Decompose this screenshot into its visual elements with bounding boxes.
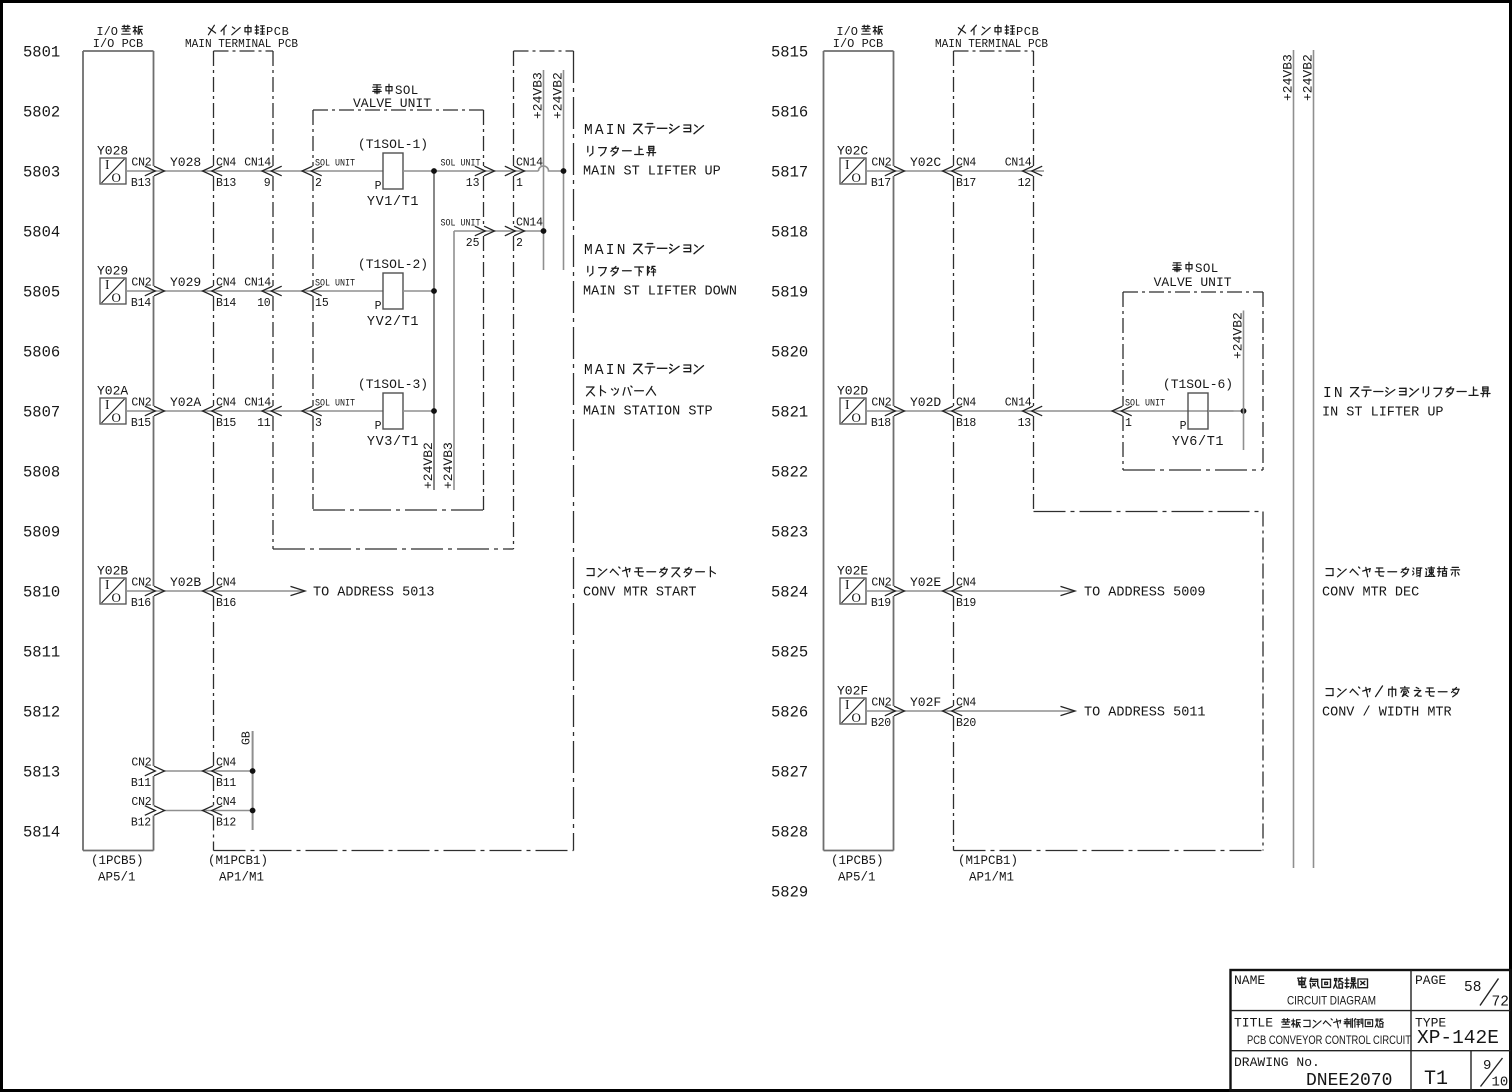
svg-text:(M1PCB1): (M1PCB1) xyxy=(208,854,268,868)
svg-text:B17: B17 xyxy=(956,177,976,190)
svg-text:5809: 5809 xyxy=(23,523,60,541)
svg-text:CN2: CN2 xyxy=(131,577,151,590)
svg-text:MAIN ST LIFTER UP: MAIN ST LIFTER UP xyxy=(583,165,721,180)
svg-text:SOL UNIT: SOL UNIT xyxy=(315,158,355,170)
svg-text:MAIN TERMINAL PCB: MAIN TERMINAL PCB xyxy=(935,37,1048,51)
svg-text:1: 1 xyxy=(516,177,523,190)
svg-text:MAIN: MAIN xyxy=(584,363,628,379)
svg-text:NAME: NAME xyxy=(1234,973,1265,988)
svg-text:5822: 5822 xyxy=(771,463,808,481)
svg-text:O: O xyxy=(852,170,861,185)
svg-text:CN2: CN2 xyxy=(871,577,891,590)
svg-text:CN2: CN2 xyxy=(871,697,891,710)
svg-text:PCB CONVEYOR CONTROL CIRCUIT: PCB CONVEYOR CONTROL CIRCUIT xyxy=(1247,1035,1411,1047)
svg-text:B14: B14 xyxy=(216,297,236,310)
svg-text:+24VB3: +24VB3 xyxy=(531,72,546,119)
svg-text:P: P xyxy=(375,180,382,193)
svg-text:CN4: CN4 xyxy=(216,157,236,170)
svg-text:MAIN: MAIN xyxy=(584,243,628,259)
svg-text:(1PCB5): (1PCB5) xyxy=(831,854,884,868)
svg-text:Y029: Y029 xyxy=(170,275,201,290)
svg-text:(T1SOL-2): (T1SOL-2) xyxy=(358,257,428,272)
svg-text:25: 25 xyxy=(466,237,480,250)
svg-text:5826: 5826 xyxy=(771,703,808,721)
svg-text:CONV MTR DEC: CONV MTR DEC xyxy=(1322,586,1419,601)
svg-text:CN4: CN4 xyxy=(956,697,976,710)
svg-text:B20: B20 xyxy=(956,717,976,730)
svg-text:I: I xyxy=(105,577,110,592)
svg-text:TO ADDRESS 5011: TO ADDRESS 5011 xyxy=(1084,706,1206,721)
svg-text:I/O PCB: I/O PCB xyxy=(93,37,143,51)
svg-text:O: O xyxy=(852,590,861,605)
svg-text:CN4: CN4 xyxy=(216,397,236,410)
svg-text:VALVE UNIT: VALVE UNIT xyxy=(1154,275,1232,290)
svg-text:B13: B13 xyxy=(131,177,151,190)
svg-text:CN4: CN4 xyxy=(956,577,976,590)
svg-text:I: I xyxy=(105,277,110,292)
svg-text:O: O xyxy=(852,410,861,425)
svg-text:AP1/M1: AP1/M1 xyxy=(219,871,264,885)
svg-text:11: 11 xyxy=(257,417,271,430)
svg-text:2: 2 xyxy=(315,177,322,190)
svg-text:YV2/T1: YV2/T1 xyxy=(367,315,419,330)
svg-text:I/O PCB: I/O PCB xyxy=(833,37,883,51)
svg-text:5824: 5824 xyxy=(771,583,808,601)
svg-text:B16: B16 xyxy=(216,597,236,610)
svg-text:B13: B13 xyxy=(216,177,236,190)
svg-text:5818: 5818 xyxy=(771,223,808,241)
svg-text:5819: 5819 xyxy=(771,283,808,301)
svg-text:AP5/1: AP5/1 xyxy=(838,871,876,885)
svg-text:CONV MTR START: CONV MTR START xyxy=(583,586,696,601)
svg-text:(T1SOL-1): (T1SOL-1) xyxy=(358,137,428,152)
svg-text:Y02E: Y02E xyxy=(837,564,868,579)
svg-text:Y028: Y028 xyxy=(97,144,128,159)
svg-text:5806: 5806 xyxy=(23,343,60,361)
svg-text:TO ADDRESS 5013: TO ADDRESS 5013 xyxy=(313,586,435,601)
svg-text:5829: 5829 xyxy=(771,883,808,901)
svg-text:Y02D: Y02D xyxy=(910,395,941,410)
svg-text:B12: B12 xyxy=(216,817,236,830)
svg-text:MAIN ST LIFTER DOWN: MAIN ST LIFTER DOWN xyxy=(583,285,737,300)
svg-text:I: I xyxy=(845,157,850,172)
svg-text:5810: 5810 xyxy=(23,583,60,601)
svg-text:12: 12 xyxy=(1018,177,1032,190)
svg-text:YV3/T1: YV3/T1 xyxy=(367,435,419,450)
svg-text:CN4: CN4 xyxy=(216,277,236,290)
svg-text:SOL UNIT: SOL UNIT xyxy=(1125,398,1165,410)
svg-text:B17: B17 xyxy=(871,177,891,190)
svg-text:Y02B: Y02B xyxy=(170,575,201,590)
svg-text:GB: GB xyxy=(241,731,254,745)
svg-text:5817: 5817 xyxy=(771,163,808,181)
svg-text:5815: 5815 xyxy=(771,43,808,61)
svg-text:Y028: Y028 xyxy=(170,155,201,170)
svg-text:I: I xyxy=(845,697,850,712)
svg-text:5828: 5828 xyxy=(771,823,808,841)
svg-text:(1PCB5): (1PCB5) xyxy=(91,854,144,868)
svg-text:DRAWING No.: DRAWING No. xyxy=(1234,1055,1320,1070)
svg-text:SOL UNIT: SOL UNIT xyxy=(441,158,481,170)
svg-text:5823: 5823 xyxy=(771,523,808,541)
svg-text:CN4: CN4 xyxy=(216,757,236,770)
svg-text:5805: 5805 xyxy=(23,283,60,301)
svg-text:P: P xyxy=(375,420,382,433)
svg-text:5814: 5814 xyxy=(23,823,60,841)
svg-text:5801: 5801 xyxy=(23,43,60,61)
svg-text:CN2: CN2 xyxy=(131,157,151,170)
svg-text:MAIN TERMINAL PCB: MAIN TERMINAL PCB xyxy=(185,37,298,51)
svg-text:5825: 5825 xyxy=(771,643,808,661)
svg-text:B11: B11 xyxy=(131,777,151,790)
svg-text:(T1SOL-6): (T1SOL-6) xyxy=(1163,377,1233,392)
svg-text:B19: B19 xyxy=(871,597,891,610)
svg-text:I: I xyxy=(105,397,110,412)
svg-text:5811: 5811 xyxy=(23,643,60,661)
svg-text:5821: 5821 xyxy=(771,403,808,421)
svg-text:5804: 5804 xyxy=(23,223,60,241)
svg-text:5813: 5813 xyxy=(23,763,60,781)
svg-text:CN4: CN4 xyxy=(956,157,976,170)
svg-text:YV1/T1: YV1/T1 xyxy=(367,195,419,210)
svg-text:CN2: CN2 xyxy=(131,757,151,770)
svg-text:Y02C: Y02C xyxy=(837,144,868,159)
svg-text:Y02B: Y02B xyxy=(97,564,128,579)
svg-text:5812: 5812 xyxy=(23,703,60,721)
svg-text:+24VB2: +24VB2 xyxy=(421,442,436,489)
svg-text:5803: 5803 xyxy=(23,163,60,181)
svg-text:CN2: CN2 xyxy=(131,397,151,410)
svg-text:Y02E: Y02E xyxy=(910,575,941,590)
svg-text:Y02F: Y02F xyxy=(837,684,868,699)
svg-text:5820: 5820 xyxy=(771,343,808,361)
svg-text:9: 9 xyxy=(1483,1058,1491,1074)
svg-text:72: 72 xyxy=(1492,995,1509,1011)
svg-text:T1: T1 xyxy=(1424,1068,1448,1091)
svg-text:O: O xyxy=(112,410,121,425)
svg-text:CN2: CN2 xyxy=(871,397,891,410)
svg-text:IN ST LIFTER UP: IN ST LIFTER UP xyxy=(1322,406,1444,421)
svg-text:3: 3 xyxy=(315,417,322,430)
svg-text:I: I xyxy=(105,157,110,172)
svg-text:CN2: CN2 xyxy=(131,277,151,290)
svg-text:9: 9 xyxy=(264,177,271,190)
svg-text:I: I xyxy=(845,397,850,412)
svg-text:IN: IN xyxy=(1323,386,1345,402)
svg-text:DNEE2070: DNEE2070 xyxy=(1306,1071,1392,1091)
svg-text:CN2: CN2 xyxy=(131,796,151,809)
svg-text:I: I xyxy=(845,577,850,592)
svg-text:CN14: CN14 xyxy=(244,397,271,410)
svg-text:Y02C: Y02C xyxy=(910,155,941,170)
svg-text:Y02D: Y02D xyxy=(837,384,868,399)
svg-text:SOL UNIT: SOL UNIT xyxy=(315,278,355,290)
svg-text:(M1PCB1): (M1PCB1) xyxy=(958,854,1018,868)
svg-text:CN14: CN14 xyxy=(1005,157,1032,170)
svg-text:VALVE UNIT: VALVE UNIT xyxy=(353,96,431,111)
svg-text:B20: B20 xyxy=(871,717,891,730)
svg-text:CN14: CN14 xyxy=(244,277,271,290)
svg-text:B18: B18 xyxy=(956,417,976,430)
svg-text:B15: B15 xyxy=(131,417,151,430)
svg-text:PAGE: PAGE xyxy=(1415,973,1446,988)
svg-text:CIRCUIT DIAGRAM: CIRCUIT DIAGRAM xyxy=(1287,994,1376,1008)
svg-text:B15: B15 xyxy=(216,417,236,430)
svg-text:O: O xyxy=(112,170,121,185)
svg-text:MAIN: MAIN xyxy=(584,123,628,139)
svg-text:10: 10 xyxy=(1492,1075,1509,1091)
svg-text:B18: B18 xyxy=(871,417,891,430)
svg-text:B11: B11 xyxy=(216,777,236,790)
svg-text:5802: 5802 xyxy=(23,103,60,121)
svg-text:SOL: SOL xyxy=(1195,262,1219,276)
svg-text:CN14: CN14 xyxy=(1005,397,1032,410)
svg-text:5827: 5827 xyxy=(771,763,808,781)
svg-text:XP-142E: XP-142E xyxy=(1417,1027,1499,1049)
svg-text:13: 13 xyxy=(1018,417,1032,430)
svg-text:O: O xyxy=(112,290,121,305)
svg-text:5807: 5807 xyxy=(23,403,60,421)
svg-text:Y02A: Y02A xyxy=(97,384,128,399)
svg-text:CONV / WIDTH MTR: CONV / WIDTH MTR xyxy=(1322,706,1452,721)
svg-text:+24VB3: +24VB3 xyxy=(441,442,456,489)
svg-text:10: 10 xyxy=(257,297,271,310)
svg-text:Y02F: Y02F xyxy=(910,695,941,710)
svg-text:AP1/M1: AP1/M1 xyxy=(969,871,1014,885)
svg-text:AP5/1: AP5/1 xyxy=(98,871,136,885)
svg-text:13: 13 xyxy=(466,177,480,190)
svg-text:58: 58 xyxy=(1464,980,1481,996)
svg-text:YV6/T1: YV6/T1 xyxy=(1172,435,1224,450)
svg-text:CN14: CN14 xyxy=(516,217,543,230)
svg-text:+24VB2: +24VB2 xyxy=(1231,312,1246,359)
svg-text:1: 1 xyxy=(1125,417,1132,430)
svg-text:B19: B19 xyxy=(956,597,976,610)
svg-text:+24VB2: +24VB2 xyxy=(1301,54,1316,101)
svg-text:TO ADDRESS 5009: TO ADDRESS 5009 xyxy=(1084,586,1206,601)
svg-text:Y029: Y029 xyxy=(97,264,128,279)
svg-text:O: O xyxy=(852,710,861,725)
svg-text:CN2: CN2 xyxy=(871,157,891,170)
svg-text:B16: B16 xyxy=(131,597,151,610)
svg-text:B12: B12 xyxy=(131,817,151,830)
svg-text:15: 15 xyxy=(315,297,329,310)
svg-text:B14: B14 xyxy=(131,297,151,310)
svg-text:(T1SOL-3): (T1SOL-3) xyxy=(358,377,428,392)
svg-text:CN4: CN4 xyxy=(216,577,236,590)
svg-text:P: P xyxy=(375,300,382,313)
svg-text:CN14: CN14 xyxy=(244,157,271,170)
svg-text:+24VB3: +24VB3 xyxy=(1281,54,1296,101)
svg-text:TITLE: TITLE xyxy=(1234,1016,1273,1031)
svg-text:SOL UNIT: SOL UNIT xyxy=(441,218,481,230)
svg-text:CN4: CN4 xyxy=(216,796,236,809)
svg-text:CN4: CN4 xyxy=(956,397,976,410)
svg-text:5816: 5816 xyxy=(771,103,808,121)
svg-text:CN14: CN14 xyxy=(516,157,543,170)
svg-text:2: 2 xyxy=(516,237,523,250)
svg-text:Y02A: Y02A xyxy=(170,395,201,410)
svg-text:O: O xyxy=(112,590,121,605)
svg-text:MAIN STATION STP: MAIN STATION STP xyxy=(583,405,713,420)
svg-text:P: P xyxy=(1180,420,1187,433)
svg-text:5808: 5808 xyxy=(23,463,60,481)
svg-text:+24VB2: +24VB2 xyxy=(551,72,566,119)
svg-text:SOL UNIT: SOL UNIT xyxy=(315,398,355,410)
